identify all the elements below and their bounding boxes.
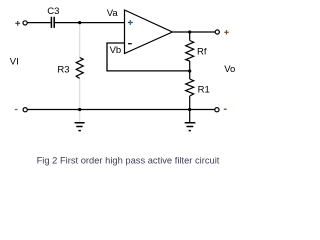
svg-text:Vo: Vo bbox=[224, 64, 235, 75]
node junction dot rail / R1 / ground bbox=[188, 108, 191, 111]
terminal polarity label + (top-right) bbox=[224, 30, 228, 34]
ground symbol right bbox=[185, 123, 196, 131]
terminal polarity label + (top-left) bbox=[15, 21, 20, 26]
resistor Rf zigzag bbox=[186, 41, 194, 62]
node junction dot output / Rf bbox=[188, 30, 191, 33]
resistor R1 zigzag bbox=[186, 79, 194, 96]
ground stem left (gray) bbox=[79, 110, 81, 123]
resistor R1 bottom lead bbox=[189, 96, 191, 110]
ground stem right bbox=[189, 110, 191, 123]
terminal polarity label - (bottom-left) bbox=[15, 109, 18, 111]
output terminal circle (bottom-right) bbox=[215, 108, 219, 112]
wire Rf to R1 bbox=[189, 61, 191, 79]
op-amp U1 triangle bbox=[125, 10, 173, 54]
node junction dot feedback / Rf / R1 bbox=[188, 69, 191, 72]
svg-text:R3: R3 bbox=[57, 65, 69, 76]
resistor R3 top lead (gray) bbox=[79, 23, 81, 58]
terminal polarity label - (bottom-right) bbox=[224, 108, 227, 110]
resistor R3 bottom lead (gray) bbox=[79, 79, 81, 110]
input terminal circle (bottom-left) bbox=[23, 108, 27, 112]
input terminal circle (top-left) bbox=[23, 21, 27, 25]
svg-text:VI: VI bbox=[10, 57, 19, 68]
node junction dot rail / R3 / ground bbox=[78, 108, 81, 111]
node junction dot top wire / R3 bbox=[78, 21, 81, 24]
wire input terminal to C3 bbox=[27, 22, 50, 24]
bottom rail wire bbox=[28, 109, 215, 111]
wire op-amp minus input to feedback (left then down then right) bbox=[107, 43, 190, 71]
svg-text:Va: Va bbox=[107, 8, 119, 19]
svg-text:Vb: Vb bbox=[110, 45, 122, 56]
wire op-amp output bbox=[172, 31, 215, 33]
op-amp + input marker bbox=[128, 22, 133, 24]
svg-text:R1: R1 bbox=[198, 85, 210, 96]
op-amp - input marker bbox=[128, 43, 132, 45]
svg-text:Rf: Rf bbox=[197, 47, 207, 58]
resistor Rf top lead bbox=[189, 32, 191, 41]
ground symbol left bbox=[75, 123, 85, 131]
capacitor C3 bbox=[51, 17, 54, 28]
resistor R3 zigzag bbox=[76, 58, 83, 79]
output terminal circle (top-right) bbox=[215, 30, 219, 34]
svg-text:C3: C3 bbox=[47, 6, 59, 17]
svg-text:Fig 2 First order high pass ac: Fig 2 First order high pass active filte… bbox=[37, 156, 220, 166]
wire C3 to op-amp + input bbox=[55, 22, 125, 24]
